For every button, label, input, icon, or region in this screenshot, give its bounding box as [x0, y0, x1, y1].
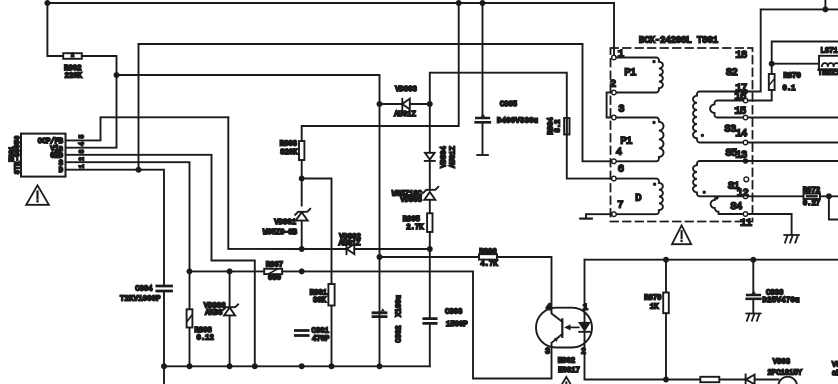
ground bus wire: [164, 365, 430, 367]
capacitor C804: [157, 286, 172, 291]
junction dot R870/L871 node: [769, 61, 775, 67]
node Vin junction dot: [114, 72, 120, 78]
T801 winding S4 tap dot: [715, 196, 719, 200]
svg-text:15: 15: [734, 106, 746, 118]
wire base rail to series resistor: [666, 379, 700, 381]
T801 pin 12: [743, 194, 748, 199]
svg-text:5: 5: [79, 134, 86, 138]
svg-text:P1: P1: [620, 136, 632, 148]
wire resistor to diode: [719, 379, 745, 381]
chassis ground below C836: [746, 314, 760, 321]
resistor R879: [663, 293, 669, 314]
svg-text:11: 11: [740, 217, 752, 229]
opto phototransistor emitter: [552, 334, 563, 347]
svg-text:C805: C805: [500, 101, 517, 109]
T801 winding S2 coil (16-15): [710, 101, 743, 118]
junction dot VD803 right: [427, 101, 433, 107]
svg-text:820K: 820K: [280, 149, 298, 157]
wire R806 to opto pin4: [497, 257, 552, 308]
zener diode VD806: [223, 304, 238, 315]
svg-text:W05Z6-8B: W05Z6-8B: [263, 229, 298, 237]
svg-text:2PC1815Y: 2PC1815Y: [768, 370, 803, 378]
svg-text:BCK-24208L T801: BCK-24208L T801: [639, 35, 718, 45]
svg-text:R805: R805: [403, 216, 420, 224]
transistor V803 body (clipped): [778, 377, 797, 384]
svg-text:S4: S4: [730, 201, 742, 213]
svg-text:D: D: [635, 193, 641, 205]
svg-text:13: 13: [735, 150, 747, 162]
svg-text:39K: 39K: [313, 297, 327, 305]
svg-text:P1: P1: [624, 67, 636, 79]
svg-text:3: 3: [618, 104, 624, 116]
capacitor C836: [747, 295, 761, 299]
T801 pin 17 junction: [743, 89, 749, 95]
transformer T801 dashed box: [611, 48, 753, 222]
wire VD801 bottom to feedback rail: [301, 221, 303, 249]
junction dot bus at S net: [187, 363, 193, 369]
wire vertical from node A down to R802: [47, 3, 63, 56]
svg-text:D400V330u: D400V330u: [497, 118, 538, 126]
wire C803 bottom to ground bus corner: [429, 325, 431, 367]
T801 pin 15: [743, 115, 748, 120]
resistor R872: [804, 194, 821, 199]
opto phototransistor collector: [552, 308, 563, 322]
wire vertical VD803 anode line down to C802 and ground bus: [379, 104, 381, 366]
junction dot after R872: [826, 193, 832, 199]
svg-text:HS817: HS817: [558, 367, 580, 375]
opto LED cathode lead to pin2: [584, 332, 586, 348]
wire R872 to edge: [820, 195, 838, 197]
S1 polarity dot: [703, 191, 706, 194]
wire Vin pin4 up to Vin node: [66, 75, 117, 148]
svg-text:0.12: 0.12: [197, 334, 214, 342]
wire top right rail: [761, 8, 838, 10]
svg-text:2.7K: 2.7K: [406, 224, 424, 232]
junction dot VD806 top: [227, 268, 233, 274]
svg-text:L871: L871: [821, 48, 838, 56]
P1 lower polarity dot: [652, 121, 655, 124]
wire Vin node to VD803 anode line: [117, 75, 380, 104]
wire R807 rail: [190, 270, 265, 272]
junction dot C836 top: [750, 257, 756, 263]
junction dot C801 top on rail: [299, 268, 305, 274]
svg-text:R807: R807: [266, 262, 283, 270]
svg-text:AU01Z: AU01Z: [339, 240, 361, 248]
wire stub up from dot (clipped): [824, 0, 826, 9]
T801 winding P1 lower: [616, 118, 663, 162]
wire VD801 branch from R803 node: [301, 179, 303, 206]
wire pin 14 rail to edge: [748, 142, 838, 144]
opto LED light arrow: [568, 326, 579, 328]
svg-text:D: D: [59, 167, 63, 175]
wire R872 node jog down to edge: [829, 196, 838, 219]
wire S net down through R808: [189, 271, 191, 309]
wire pin2 to pin3 jog: [607, 93, 612, 118]
wire R808 to bus: [189, 328, 191, 367]
svg-text:R806: R806: [479, 248, 496, 256]
svg-text:3: 3: [545, 348, 550, 357]
T801 winding P1 upper: [616, 58, 663, 93]
svg-text:VD804: VD804: [441, 146, 449, 168]
junction dot VD801 bottom on feedback rail: [299, 246, 305, 252]
wire C836 top lead: [752, 260, 754, 294]
junction dot C805 top wire tap: [480, 0, 486, 6]
svg-text:S2: S2: [726, 67, 738, 79]
junction dot S net at R807 rail: [187, 268, 193, 274]
optocoupler N802 body: [536, 308, 592, 348]
resistor R870 fusible: [769, 74, 775, 90]
wire D pin1 to C804 drop: [66, 170, 165, 285]
wire R870 top lead: [771, 64, 773, 74]
svg-text:14: 14: [735, 128, 747, 140]
wire top bus from node A to transformer pin1: [47, 2, 614, 4]
svg-text:1: 1: [79, 164, 86, 168]
junction dot R805 bottom: [427, 246, 433, 252]
wire R807 to opto emitter return: [282, 271, 551, 378]
wire pin 13 rail to edge: [746, 160, 838, 162]
svg-text:2: 2: [610, 79, 616, 91]
warning triangle below opto (clipped): [557, 377, 576, 384]
svg-text:AU01Z: AU01Z: [394, 111, 416, 119]
wire R803 node to R801 top: [302, 179, 332, 285]
svg-text:4: 4: [616, 147, 622, 159]
svg-text:2: 2: [71, 53, 74, 59]
svg-text:AU01Z: AU01Z: [450, 146, 458, 168]
resistor R808 fusible: [187, 309, 193, 327]
T801 winding S3: [693, 91, 743, 142]
svg-text:R870: R870: [784, 73, 801, 81]
S3 polarity dot: [701, 134, 704, 137]
resistor R801: [328, 284, 334, 306]
wire GND pin3 jog to ground bus: [66, 155, 255, 366]
wire feedback rail OCP corner to VD802: [228, 117, 346, 249]
junction dot R803 bottom: [299, 176, 305, 182]
T801 pin 1: [612, 55, 617, 60]
svg-text:220K: 220K: [65, 73, 83, 81]
T801 pin 16: [743, 98, 748, 103]
T801 winding S4: [711, 196, 744, 214]
resistor R8xx series (unlabeled): [700, 377, 719, 382]
wire VD805 to R805: [429, 200, 431, 214]
wire D-pin vertical drop: [138, 44, 140, 170]
D winding polarity dot: [653, 183, 656, 186]
svg-text:6: 6: [618, 164, 624, 176]
warning triangle inside T801 area: [672, 225, 691, 244]
unconnected pin circle: [744, 177, 749, 182]
opto LED diode: [579, 323, 590, 332]
junction dot R879 bottom: [663, 377, 669, 383]
resistor R804: [564, 118, 569, 135]
svg-text:1500P: 1500P: [446, 321, 468, 329]
wire VD806 top connection: [229, 271, 231, 307]
svg-text:aP: aP: [832, 370, 838, 378]
svg-text:4: 4: [546, 304, 551, 313]
svg-text:470P: 470P: [312, 336, 329, 344]
T801 pin 13 junction: [743, 158, 749, 164]
svg-text:0.1: 0.1: [783, 85, 796, 93]
svg-text:V803: V803: [773, 358, 790, 366]
wire R870 bottom jog to pin 16: [748, 90, 772, 101]
svg-text:V8: V8: [832, 361, 838, 369]
wire pin 11 to chassis ground: [748, 214, 792, 235]
diode VD804: [425, 153, 435, 161]
diode VD8xx bottom (cathode left): [746, 374, 755, 384]
T801 winding D: [616, 179, 663, 215]
wire D-pin net horizontal y44: [139, 43, 583, 45]
svg-text:TEM21: TEM21: [818, 70, 838, 78]
svg-text:VD805: VD805: [400, 197, 422, 205]
P1 upper polarity dot: [652, 60, 655, 63]
C805 stub end bar: [477, 154, 488, 156]
svg-text:R879: R879: [644, 295, 661, 303]
diode VD803: [402, 99, 410, 110]
T801 pin 2: [612, 90, 617, 95]
wire R879 top lead: [665, 260, 667, 293]
wire R806 left lead: [380, 256, 480, 258]
capacitor C836 polarity mark: [752, 290, 756, 293]
wire VD804 to VD805: [429, 161, 431, 190]
svg-text:1: 1: [618, 49, 624, 61]
resistor R807: [264, 269, 282, 274]
warning triangle under IC: [26, 185, 49, 205]
wire R801 bottom to ground bus: [331, 306, 333, 367]
T801 pin 11: [743, 212, 748, 217]
svg-text:7: 7: [617, 200, 623, 212]
svg-text:18: 18: [735, 50, 747, 62]
wire bridge over C805 (pi link): [430, 73, 567, 118]
svg-text:T2KV1000P: T2KV1000P: [120, 296, 161, 304]
chassis ground at pin 11: [784, 235, 799, 243]
resistor R806: [479, 254, 497, 259]
wire R803 bottom to node: [301, 160, 303, 179]
wire VD803: [380, 103, 430, 105]
junction dot R806 tap on VD803 line: [377, 254, 383, 260]
diode VD802: [347, 244, 355, 254]
junction dot top right rail: [822, 6, 828, 12]
IC N801 STR-G8656 box: [21, 134, 66, 177]
svg-text:N802: N802: [558, 358, 575, 366]
wire OCP/FB pin5 to feedback rail: [66, 117, 229, 140]
junction dot D pin net: [136, 167, 142, 173]
svg-text:4.7K: 4.7K: [480, 261, 498, 269]
svg-text:8.2: 8.2: [555, 120, 563, 133]
resistor R803: [299, 141, 304, 160]
wire pin4 drop to transformer: [583, 44, 612, 161]
wire diode to V803 base: [755, 379, 779, 381]
svg-text:VD801: VD801: [274, 219, 296, 227]
svg-text:C801: C801: [312, 328, 329, 336]
wire C805 bottom stub: [482, 124, 484, 155]
svg-text:12: 12: [737, 187, 749, 199]
svg-text:R803: R803: [280, 141, 297, 149]
wire pin 15 rail to edge: [748, 117, 838, 119]
wire VD802 cathode to R805 bottom node: [354, 248, 430, 250]
wire second right rail: [772, 42, 838, 64]
junction dot bus at GND jog: [252, 363, 258, 369]
resistor R802: [63, 53, 82, 59]
wire R805 bottom to node and down to C803: [429, 232, 431, 318]
capacitor C802: [373, 313, 386, 317]
wire pin17 riser to top right rail: [746, 9, 761, 91]
opto LED lead from pin1: [584, 260, 586, 323]
zener diode VD801: [295, 209, 310, 221]
svg-text:1K: 1K: [650, 304, 659, 312]
svg-text:0.27: 0.27: [803, 200, 820, 208]
junction dot bus left end: [161, 363, 167, 369]
wire R804 bottom to pin6: [567, 135, 612, 179]
wire C804 bottom to bus and off bottom: [163, 292, 165, 384]
wire S pin2 down to R807 rail: [66, 162, 190, 271]
wire opto pin1 feed rail: [585, 259, 838, 261]
junction dot R879 top: [663, 257, 669, 263]
svg-text:R872: R872: [803, 187, 820, 195]
svg-text:D25V470u: D25V470u: [763, 297, 800, 305]
junction dot bus at C801: [299, 363, 305, 369]
junction dot top wire to R803 branch: [456, 0, 462, 6]
wire pin7 stub to tie point: [586, 214, 612, 217]
resistor R805: [427, 213, 432, 232]
wire C836 to chassis ground: [752, 300, 754, 313]
node A junction dot: [44, 0, 50, 6]
pin7 tie bar: [580, 218, 592, 220]
svg-text:4: 4: [79, 142, 86, 146]
junction dot VD803 left: [377, 101, 383, 107]
svg-text:3: 3: [79, 149, 86, 153]
wire VD806 to bus: [229, 315, 231, 366]
svg-text:X100u: X100u: [395, 295, 403, 317]
inductor L871 boxed: [819, 56, 838, 69]
wire node to L871: [772, 63, 819, 65]
T801 pin 4: [612, 159, 617, 164]
svg-text:C802: C802: [395, 325, 403, 342]
junction dot bus at R801: [329, 363, 335, 369]
T801 pin 14: [743, 140, 748, 145]
wire R879 bottom to base rail: [665, 313, 667, 379]
wire top bus down to pin 1: [613, 3, 615, 56]
T801 pin 3: [612, 115, 617, 120]
opto phototransistor base bar: [561, 319, 563, 337]
capacitor C805 polarity mark: [481, 113, 485, 116]
wire R802 to Vin node: [82, 56, 117, 75]
svg-text:C803: C803: [445, 309, 462, 317]
svg-text:S3: S3: [724, 124, 736, 136]
T801 winding S1: [693, 161, 743, 196]
wire VD804 branch: [429, 104, 431, 153]
svg-text:AK03: AK03: [205, 310, 222, 318]
svg-text:VD803: VD803: [395, 86, 417, 94]
svg-text:2: 2: [79, 157, 86, 161]
svg-text:680: 680: [268, 274, 281, 282]
junction dot bus at VD806: [227, 363, 233, 369]
svg-text:STR-G8656: STR-G8656: [14, 136, 21, 174]
wire pin 12 rail to R872: [748, 195, 804, 197]
T801 pin 6: [612, 176, 617, 181]
wire top bus down to R803 top: [302, 3, 459, 141]
junction dot bus at C802: [377, 363, 383, 369]
wire top bus down to C805: [482, 3, 484, 117]
svg-text:C804: C804: [135, 285, 152, 293]
capacitor C802 polarity mark: [381, 308, 385, 311]
capacitor C805: [476, 118, 490, 122]
zener diode VD805: [423, 187, 438, 200]
capacitor C803: [424, 319, 436, 324]
capacitor C801: [295, 331, 308, 336]
T801 pin 7: [612, 212, 617, 217]
wire opto pin2 down and right: [585, 347, 667, 379]
